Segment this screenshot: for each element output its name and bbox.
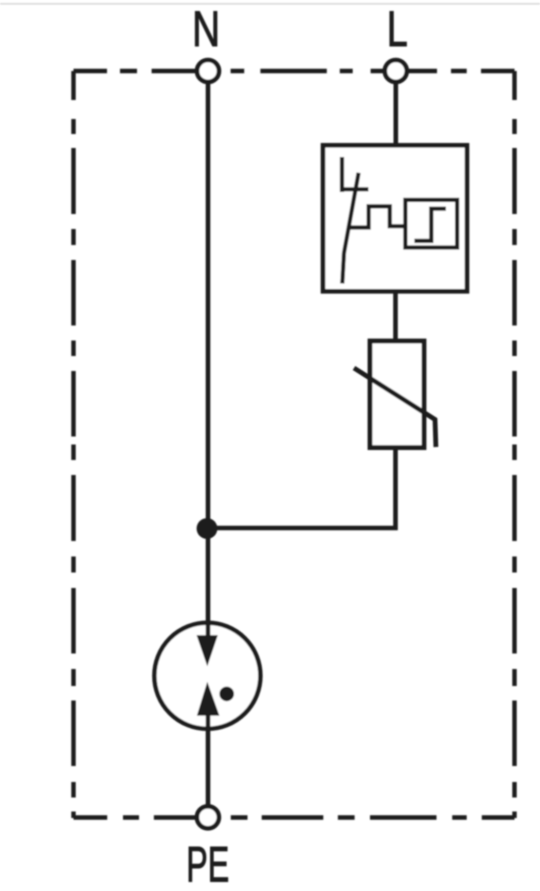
svg-text:PE: PE xyxy=(186,837,229,891)
wire out of spark gap bottom xyxy=(206,711,211,731)
page top rule xyxy=(0,3,540,5)
enclosure dashed border right xyxy=(512,71,516,818)
trigger step symbol xyxy=(414,209,446,241)
wire N vertical xyxy=(206,81,211,645)
enclosure dashed border top xyxy=(74,69,515,73)
disconnector contact tick xyxy=(340,187,368,191)
wire L drop to disconnector xyxy=(393,81,398,145)
wire varistor to junction xyxy=(207,448,396,529)
spark gap top electrode arrow xyxy=(197,635,218,666)
junction node xyxy=(197,518,218,539)
svg-text:L: L xyxy=(387,1,408,57)
wire spark gap to PE xyxy=(206,712,211,808)
disconnector thermal step link xyxy=(349,206,405,227)
svg-text:N: N xyxy=(192,1,220,57)
wire into spark gap top xyxy=(206,621,211,641)
terminal PE xyxy=(197,806,219,828)
varistor RV1 body xyxy=(370,341,424,448)
terminal L xyxy=(385,60,407,82)
enclosure dashed border left xyxy=(71,71,75,818)
spark gap bottom electrode arrow xyxy=(197,682,220,716)
varistor diagonal xyxy=(354,368,436,447)
enclosure dashed border bottom xyxy=(74,815,515,819)
disconnector fixed contact xyxy=(340,157,344,192)
terminal N xyxy=(197,60,219,82)
wire disconnector to varistor xyxy=(393,291,398,341)
trigger unit inner box xyxy=(405,200,457,248)
spark gap F1 circle xyxy=(154,623,260,729)
disconnector U1 box xyxy=(323,145,467,291)
disconnector blade xyxy=(342,173,358,284)
spark gap trigger dot xyxy=(219,687,234,702)
